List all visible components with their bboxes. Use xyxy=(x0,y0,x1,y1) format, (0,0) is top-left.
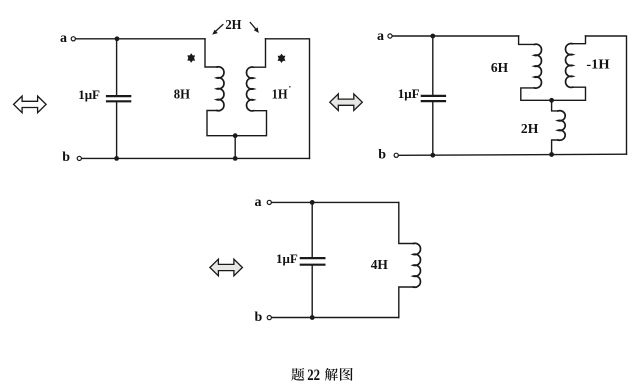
node: transformer center tap xyxy=(233,133,238,138)
node: 2H at bottom rail xyxy=(549,152,554,157)
caption char TI (problem) xyxy=(291,368,304,381)
svg-text:a: a xyxy=(377,29,384,44)
svg-text:1μF: 1μF xyxy=(398,86,420,101)
wire: step down to 6H coil xyxy=(519,36,535,44)
terminal b (bottom circuit) xyxy=(267,316,271,320)
wire: bottom rail (left circuit) xyxy=(81,157,309,159)
caption char TU (figure) xyxy=(340,368,353,381)
node: top junction at capacitor (right) xyxy=(430,34,435,39)
terminal a (bottom circuit) xyxy=(267,200,271,204)
wire: bottom rail (right circuit) xyxy=(398,154,626,155)
svg-text:b: b xyxy=(255,310,263,325)
svg-text:4H: 4H xyxy=(371,258,388,273)
svg-text:b: b xyxy=(62,150,70,165)
node: top junction at capacitor (bottom) xyxy=(310,200,315,205)
wire: step down to 1H coil xyxy=(254,39,266,67)
terminal b (right circuit) xyxy=(394,153,398,157)
inductor L2 1H coil xyxy=(247,67,254,111)
svg-text:1μF: 1μF xyxy=(276,251,298,266)
wire: bottom rail (bottom circuit) xyxy=(272,317,399,319)
equivalence arrow left xyxy=(14,96,47,113)
svg-text:a: a xyxy=(60,31,67,46)
svg-text:8H: 8H xyxy=(174,88,190,103)
wire: a to top-left step xyxy=(76,38,205,40)
terminal a (right circuit) xyxy=(388,34,392,38)
wire: a to top-left step (right circuit) xyxy=(392,35,518,37)
wire: center tap to bottom rail xyxy=(234,136,236,159)
wire: step down to -1H coil xyxy=(573,36,586,44)
wire: right edge top (bottom circuit) xyxy=(399,202,414,243)
equivalence arrow bottom xyxy=(210,259,243,276)
wire: step down to 8H coil xyxy=(205,39,217,67)
wire: right edge bottom (bottom circuit) xyxy=(399,287,414,318)
dot marker (asterisk) on 8H xyxy=(187,53,195,62)
inductor 4H coil xyxy=(413,243,420,287)
wire: top right segment + right edge (right circuit) xyxy=(586,36,627,154)
wire: -1H bottom to common node xyxy=(552,87,586,100)
inductor 2H coil with leads xyxy=(552,100,558,111)
node: common node of 6H/-1H/2H xyxy=(549,98,554,103)
svg-text:2H: 2H xyxy=(521,122,539,137)
terminal a (left circuit) xyxy=(71,37,75,41)
wire: top rail (bottom circuit) xyxy=(272,201,399,203)
dot marker (asterisk) on 1H xyxy=(278,54,286,63)
node: bottom junction at capacitor (bottom) xyxy=(310,315,315,320)
svg-text:-1H: -1H xyxy=(586,58,609,73)
svg-text:2H: 2H xyxy=(225,17,242,32)
terminal b (left circuit) xyxy=(77,156,81,160)
capacitor C 1uF (bottom): bottom lead xyxy=(311,266,313,318)
capacitor C 1uF (left): bottom lead xyxy=(116,102,118,158)
capacitor C 1uF (bottom): top lead xyxy=(311,202,313,257)
capacitor C 1uF (right): bottom lead xyxy=(432,102,434,155)
speck after 1H label xyxy=(289,86,291,88)
node: center tap on bottom rail xyxy=(233,156,238,161)
inductor 6H coil xyxy=(534,44,541,88)
svg-text:1H: 1H xyxy=(272,88,288,103)
svg-text:a: a xyxy=(255,195,262,210)
capacitor C 1uF (right): plates xyxy=(422,96,445,101)
wire: 6H bottom to common node xyxy=(521,88,552,100)
capacitor C 1uF (bottom): plates xyxy=(301,258,325,265)
wire: 1H bottom to center tap xyxy=(235,111,266,136)
caption char JIE (solution) xyxy=(325,368,338,381)
capacitor C 1uF (left): top lead xyxy=(116,39,118,95)
wire: top wire right segment + right edge xyxy=(266,39,310,159)
svg-text:22: 22 xyxy=(307,367,320,384)
node: bottom junction at capacitor xyxy=(114,156,119,161)
inductor -1H coil xyxy=(566,43,573,87)
svg-text:1μF: 1μF xyxy=(78,87,100,102)
capacitor C 1uF (left): plates xyxy=(107,96,130,101)
node: top junction at capacitor xyxy=(115,36,120,41)
equivalence arrow middle xyxy=(330,94,363,111)
inductor L1 8H coil xyxy=(217,67,224,111)
svg-text:b: b xyxy=(378,148,386,163)
mutual inductance arrow left xyxy=(215,25,223,33)
capacitor C 1uF (right): top lead xyxy=(432,36,434,95)
node: bottom junction at capacitor (right) xyxy=(430,153,435,158)
svg-text:6H: 6H xyxy=(491,61,508,76)
wire: 8H bottom to center tap xyxy=(207,111,235,136)
mutual inductance arrow right xyxy=(250,23,256,31)
